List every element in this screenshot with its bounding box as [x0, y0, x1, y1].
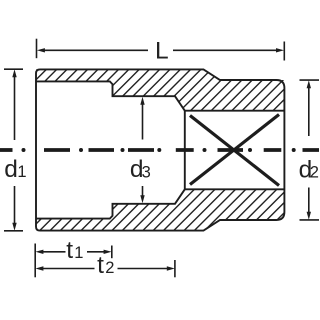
svg-text:2: 2: [310, 164, 319, 182]
t2 arrowheads: [35, 266, 43, 270]
socket body outer contour: [36, 69, 284, 230]
hatching of section walls: [0, 65, 320, 235]
t1 arrowheads: [35, 250, 43, 254]
svg-text:d: d: [4, 156, 18, 183]
centerline dots: [22, 148, 296, 152]
svg-text:3: 3: [142, 163, 151, 181]
centerline (dash-dot): [0, 148, 319, 152]
dimension t1 line: [43, 246, 112, 259]
svg-text:2: 2: [105, 259, 114, 277]
L arrowheads: [37, 48, 45, 52]
dimension L line: [37, 39, 285, 61]
svg-text:1: 1: [17, 163, 26, 181]
square-hole X cross: [190, 115, 279, 186]
d1 arrowheads: [12, 69, 16, 77]
dimension t2 line: [35, 244, 175, 278]
bore inner contour top: [36, 81, 185, 110]
dimension d1 line: [4, 69, 23, 231]
svg-text:1: 1: [74, 244, 83, 262]
svg-text:t: t: [97, 252, 104, 279]
dimension d3 line: [142, 104, 144, 196]
bore inner contour bottom: [36, 189, 185, 218]
square drive hole outline: [185, 111, 285, 190]
dimension d2 line: [300, 80, 320, 220]
svg-text:t: t: [66, 237, 73, 264]
d3 arrowheads: [140, 97, 144, 105]
svg-text:L: L: [155, 38, 169, 65]
d2 arrowheads: [307, 80, 311, 88]
